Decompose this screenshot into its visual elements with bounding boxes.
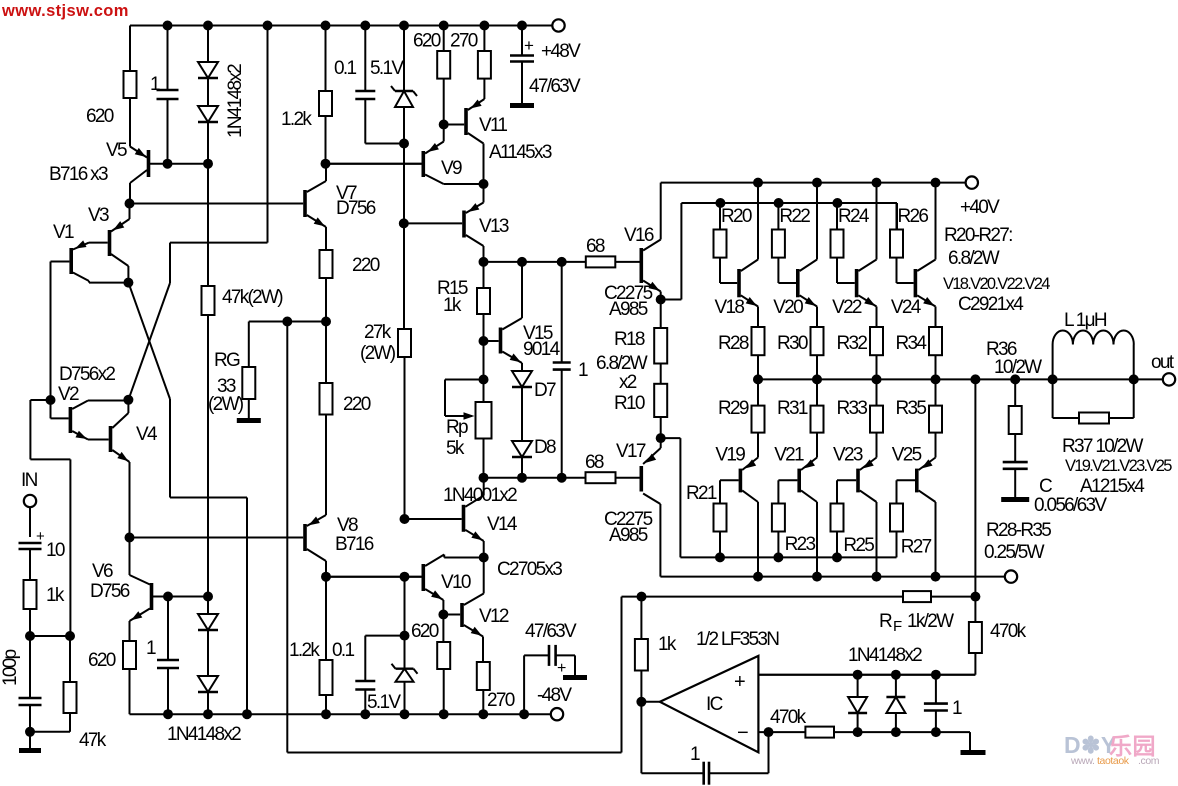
- node rail/floatcap: [519, 709, 529, 719]
- label plus input cap: [36, 528, 45, 545]
- label 1N4148x2 (opamp): [848, 645, 922, 666]
- wire R1 emitter feed: [742, 433, 758, 470]
- resistor R37 damping: [1053, 379, 1134, 423]
- resistor RF 1k/2W: [903, 591, 931, 602]
- resistor R27 base: [890, 504, 903, 532]
- wire 68 to V16 base: [615, 261, 639, 263]
- wire top supply rail: [130, 25, 552, 27]
- svg-text:D756: D756: [90, 581, 130, 602]
- resistor R20 6.8/2W: [714, 230, 727, 258]
- node bias R21: [715, 552, 725, 562]
- transistor V22: [857, 183, 877, 307]
- node top rail / 0.1 cap: [360, 21, 370, 31]
- capacitor 0.1 top: [355, 91, 375, 99]
- label 1N4148x2 vertical: [225, 64, 246, 138]
- label 270 (V11): [450, 31, 478, 52]
- wire V12 emitter to 270: [482, 637, 484, 663]
- wire 47k bottom link: [30, 731, 70, 733]
- label A1145x3: [489, 142, 552, 163]
- node minus d1: [853, 727, 863, 737]
- transistor V9: [326, 142, 444, 185]
- svg-text:+40V: +40V: [960, 197, 1000, 218]
- label V7: [336, 183, 357, 204]
- wire R15 top lead: [483, 262, 485, 288]
- svg-text:R34: R34: [896, 333, 928, 354]
- resistor R25 base: [831, 504, 844, 532]
- label IN: [21, 470, 38, 491]
- node bias R24: [832, 198, 842, 208]
- wire bias link: [30, 635, 70, 637]
- node zener/0.1: [399, 139, 409, 149]
- svg-text:V21: V21: [774, 445, 804, 466]
- ground -48 cap: [563, 675, 587, 680]
- wire V3 base feed from rail: [170, 26, 268, 284]
- label 5.1V top: [370, 58, 404, 79]
- node comp cap bottom: [557, 473, 567, 483]
- resistor 220 (V8): [320, 383, 333, 415]
- node V2/V4 collectors: [123, 395, 133, 405]
- label 1N4148x2 bottom: [167, 724, 241, 745]
- terminal out: [1163, 373, 1175, 385]
- node top rail / 1.2k: [321, 21, 331, 31]
- wire 47k to diodes lower: [207, 597, 209, 615]
- wire diode b bottom: [895, 713, 897, 732]
- svg-text:R23: R23: [785, 534, 816, 555]
- node out R28: [753, 374, 763, 384]
- label plus input: [734, 671, 746, 693]
- label V5: [106, 140, 127, 161]
- node V6 base / diodes: [203, 592, 213, 602]
- label 1k/2W: [907, 611, 954, 632]
- label 1 comp: [578, 360, 588, 381]
- node out L left: [1048, 374, 1058, 384]
- label 10/2W (R36): [994, 357, 1042, 378]
- svg-text:220: 220: [352, 255, 380, 276]
- label R29: [718, 398, 749, 419]
- svg-text:.com: .com: [1138, 755, 1160, 767]
- wire R18-R10: [660, 364, 662, 384]
- svg-text:620: 620: [88, 650, 116, 671]
- label R22: [779, 206, 810, 227]
- resistor 620 (V5 emitter): [124, 71, 137, 98]
- label 0.1 top: [334, 58, 356, 79]
- label R28-R35: [986, 520, 1051, 541]
- wire feedback vertical: [286, 322, 288, 753]
- label 5k: [446, 438, 465, 459]
- node rail/620c: [439, 709, 449, 719]
- svg-text:470k: 470k: [770, 707, 807, 728]
- node plus c1: [931, 670, 941, 680]
- label 10: [46, 540, 65, 561]
- wire 470k NFB: [974, 597, 976, 622]
- label D756x2: [59, 364, 115, 385]
- svg-text:R30: R30: [777, 333, 808, 354]
- label R20-R27:: [944, 225, 1012, 246]
- svg-text:taotaok: taotaok: [1097, 755, 1130, 767]
- label R27: [901, 537, 932, 558]
- svg-text:V24: V24: [891, 297, 922, 318]
- label R35: [896, 398, 927, 419]
- node bias R23: [773, 552, 783, 562]
- wire comp cap top: [561, 262, 563, 363]
- label V14: [487, 514, 518, 535]
- wire V6 base to cap: [167, 597, 169, 661]
- svg-text:R26: R26: [898, 206, 929, 227]
- wire R26 to V24 base: [897, 258, 914, 283]
- node top rail / C1: [163, 21, 173, 31]
- label R33: [837, 398, 868, 419]
- svg-text:A985: A985: [609, 525, 648, 546]
- wire floatcap left: [524, 655, 549, 714]
- wire cap to bottom rail: [167, 668, 169, 714]
- node RG / emitter chain: [321, 317, 331, 327]
- wire 470k to plus line: [758, 653, 975, 675]
- svg-text:6.8/2W: 6.8/2W: [948, 248, 1000, 269]
- wire V17e to bias rail low: [661, 438, 897, 557]
- svg-text:5.1V: 5.1V: [370, 58, 404, 79]
- label 1 (loop cap): [690, 744, 700, 765]
- wire bias to R26: [896, 203, 898, 230]
- svg-text:V3: V3: [88, 205, 109, 226]
- resistor 270 (V12): [477, 662, 490, 690]
- node out R34: [931, 374, 941, 384]
- wire RF node to 1k: [640, 597, 642, 639]
- label R34: [896, 333, 928, 354]
- label D8: [534, 437, 556, 458]
- svg-text:1k/2W: 1k/2W: [907, 611, 954, 632]
- svg-text:1: 1: [578, 360, 588, 381]
- node top rail / 270: [479, 21, 489, 31]
- node V14e/V10c/V12c: [479, 553, 489, 563]
- node rail V24c: [931, 178, 941, 188]
- wire R36 to C: [1014, 434, 1016, 462]
- node rail V18c: [753, 178, 763, 188]
- wire fb to opamp: [622, 597, 642, 753]
- transistor V14: [405, 478, 484, 541]
- label R23: [785, 534, 816, 555]
- label R15: [437, 278, 468, 299]
- svg-text:+: +: [524, 36, 534, 55]
- svg-text:A1145x3: A1145x3: [489, 142, 552, 163]
- wire opamp plus line: [758, 674, 975, 676]
- node out R32: [872, 374, 882, 384]
- wire diagonal V1/V3 collectors down: [128, 283, 170, 498]
- wire V22 emitter to R: [876, 307, 878, 328]
- svg-text:1N4148x2: 1N4148x2: [848, 645, 922, 666]
- node minus d2: [891, 727, 901, 737]
- label 47/63V top: [529, 76, 581, 97]
- wire D4 to bottom rail: [207, 692, 209, 714]
- resistor R18: [654, 328, 667, 364]
- label 33: [217, 376, 236, 397]
- label V24: [891, 297, 922, 318]
- svg-text:R37 10/2W: R37 10/2W: [1062, 436, 1144, 457]
- wire RF right: [931, 596, 975, 598]
- ground opamp: [961, 750, 986, 755]
- emitter arrow V15: [510, 353, 521, 362]
- wire 47k to gnd link: [69, 713, 71, 732]
- transistor V4: [88, 400, 130, 462]
- svg-text:V18.V20.V22.V24: V18.V20.V22.V24: [943, 275, 1050, 293]
- wire V5 collector to V7 base: [130, 203, 304, 205]
- svg-text:-48V: -48V: [537, 685, 572, 706]
- svg-text:R18: R18: [614, 329, 645, 350]
- node D8 bottom: [517, 473, 527, 483]
- terminal +48V: [552, 19, 564, 31]
- node input bias: [25, 631, 35, 641]
- capacitor C 1u (V6 base): [157, 660, 179, 668]
- svg-text:1: 1: [952, 698, 962, 719]
- wire +40V rail: [661, 182, 966, 184]
- svg-text:0.25/5W: 0.25/5W: [984, 542, 1045, 563]
- svg-text:V25: V25: [892, 445, 922, 466]
- svg-text:www.stjsw.com: www.stjsw.com: [1, 2, 129, 20]
- resistor R15 1k: [477, 288, 490, 314]
- resistor RG 33(2W): [242, 367, 255, 399]
- label V11: [479, 115, 507, 136]
- label V8: [337, 515, 358, 536]
- diode 1N4148 a: [198, 62, 218, 78]
- transistor V19: [720, 469, 758, 577]
- wire wiper link: [445, 380, 484, 417]
- svg-text:27k: 27k: [364, 322, 392, 343]
- svg-text:V1: V1: [53, 222, 74, 243]
- label V19.V21.V23.V25: [1065, 457, 1172, 475]
- label 270 (V12): [487, 690, 515, 711]
- wire R22 to V20 base: [778, 258, 796, 283]
- label 0.056/63V: [1034, 495, 1107, 516]
- wire zener node link: [404, 577, 406, 636]
- wire V8 collector line: [326, 576, 421, 578]
- svg-text:R20: R20: [721, 206, 752, 227]
- resistor R33: [870, 406, 883, 433]
- wire IN to cap: [29, 507, 31, 537]
- svg-text:R25: R25: [843, 535, 874, 556]
- wire R32 to output rail: [876, 355, 878, 379]
- transistor V24: [915, 183, 935, 307]
- label A985 (V17): [609, 525, 648, 546]
- resistor 27k(2W): [398, 329, 411, 357]
- transistor V15: [501, 262, 523, 371]
- resistor 270 (V11): [478, 51, 491, 79]
- wire base node to 47k: [207, 164, 209, 286]
- resistor 47k input: [64, 682, 77, 713]
- node RF left: [637, 592, 647, 602]
- wire zener b to rail: [404, 682, 406, 715]
- node minus/loop cap: [764, 727, 774, 737]
- svg-text:6.8/2W: 6.8/2W: [596, 353, 648, 374]
- transistor V10: [326, 555, 484, 601]
- svg-text:C2921x4: C2921x4: [958, 294, 1024, 315]
- label 220 (V7): [352, 255, 380, 276]
- svg-text:R10: R10: [614, 393, 645, 414]
- resistor R22 6.8/2W: [772, 230, 785, 258]
- label 68 upper: [586, 236, 605, 257]
- svg-text:V12: V12: [479, 606, 509, 627]
- transistor V13: [464, 184, 484, 262]
- node plus d1: [853, 670, 863, 680]
- node top rail / V3 base feed: [263, 21, 273, 31]
- diode 1N4148 c: [198, 614, 218, 630]
- label V18: [715, 297, 745, 318]
- resistor R26 6.8/2W: [890, 230, 903, 258]
- svg-text:270: 270: [487, 690, 515, 711]
- node V13 base tap: [399, 218, 409, 228]
- resistor R10: [654, 384, 667, 417]
- svg-text:R35: R35: [896, 398, 927, 419]
- svg-text:F: F: [893, 618, 902, 635]
- svg-text:V5: V5: [106, 140, 127, 161]
- node V5 base / diodes: [203, 159, 213, 169]
- resistor R32: [870, 327, 883, 355]
- transistor V5: [130, 147, 208, 200]
- label R21: [686, 483, 717, 504]
- node 1.2k / V9 base / V7: [321, 159, 331, 169]
- wire rail to R 620 top-left: [129, 26, 131, 72]
- resistor R23 base: [772, 504, 785, 532]
- wire R24 to V22 base: [837, 258, 855, 283]
- wire R10 to V17e node: [660, 417, 662, 448]
- wire 27k down to V14 base node: [404, 357, 406, 519]
- wire V16e to bias rail up: [661, 203, 897, 300]
- resistor R35: [929, 406, 942, 433]
- svg-text:100p: 100p: [0, 649, 21, 686]
- node rail/step wire: [242, 709, 252, 719]
- wire V6 emitter down: [129, 621, 131, 641]
- label 5.1V bottom: [367, 692, 401, 713]
- resistor 1k input: [24, 580, 37, 609]
- wire output rail: [758, 378, 1163, 380]
- emitter arrow V24: [923, 297, 934, 306]
- svg-text:V20: V20: [773, 297, 803, 318]
- diode 1N4148 d: [198, 676, 218, 692]
- label V6: [92, 561, 113, 582]
- ground +48 cap: [510, 103, 534, 108]
- capacitor 47/63V +48 rail: [510, 56, 534, 62]
- label V10: [441, 572, 471, 593]
- diode 1N4148 b: [198, 106, 218, 122]
- wire D1-D2: [207, 78, 209, 106]
- svg-text:V18: V18: [715, 297, 745, 318]
- resistor R36: [1009, 406, 1022, 434]
- node neg V23: [872, 572, 882, 582]
- emitter arrow V6: [131, 611, 142, 620]
- label V20: [773, 297, 803, 318]
- wire 620 to V11 base node: [443, 79, 445, 142]
- label A985 (V16): [609, 299, 648, 320]
- label V3: [88, 205, 109, 226]
- ground output C: [1001, 497, 1029, 502]
- wire V15 base to wiper node: [483, 341, 485, 402]
- label 1k (opamp): [658, 634, 677, 655]
- wire V12b node to 620: [442, 615, 444, 643]
- wire step to bottom rail: [170, 498, 247, 715]
- node top rail / 620: [439, 21, 449, 31]
- node top rail / filter cap: [517, 21, 527, 31]
- node RF right: [970, 592, 980, 602]
- label out: [1151, 352, 1175, 373]
- label V21: [774, 445, 804, 466]
- wire 620 to bottom rail: [129, 669, 131, 714]
- wire node to 100p: [29, 636, 31, 698]
- svg-text:V13: V13: [479, 216, 509, 237]
- svg-text:B716: B716: [335, 534, 374, 555]
- emitter arrow V19: [745, 459, 756, 468]
- wire 0.1b link: [365, 636, 404, 681]
- node rail/cap1b: [163, 709, 173, 719]
- label R10: [614, 393, 645, 414]
- svg-text:10: 10: [46, 540, 65, 561]
- label 47/63V bottom: [525, 621, 577, 642]
- svg-text:D756x2: D756x2: [59, 364, 115, 385]
- ground input: [19, 748, 41, 753]
- diode 1N4148 f: [886, 697, 905, 713]
- label R28: [718, 333, 749, 354]
- label V12: [479, 606, 509, 627]
- transistor V18: [739, 183, 758, 307]
- wire rail to C1: [167, 26, 169, 91]
- wire 100p to gnd node: [29, 705, 31, 748]
- wire V12 base line: [443, 614, 460, 616]
- label V19: [715, 445, 745, 466]
- wire V18 emitter to R: [757, 307, 759, 328]
- wire minus to ground: [969, 732, 971, 750]
- svg-text:1k: 1k: [443, 295, 462, 316]
- svg-text:V23: V23: [833, 445, 863, 466]
- wire 0.1b to rail: [364, 690, 366, 715]
- transistor V11: [444, 99, 485, 184]
- label D7: [534, 380, 556, 401]
- wire R30 to output rail: [816, 355, 818, 379]
- wire C to ground: [1014, 469, 1016, 497]
- label 68 lower: [585, 452, 604, 473]
- emitter arrow V23: [863, 459, 874, 468]
- transistor V17: [641, 448, 660, 577]
- label +40V: [960, 197, 1000, 218]
- svg-text:L 1μH: L 1μH: [1064, 310, 1107, 331]
- emitter arrow V10: [431, 590, 442, 599]
- node RG / feedback: [282, 317, 292, 327]
- logo taotaok: [1070, 755, 1160, 767]
- svg-text:270: 270: [450, 31, 478, 52]
- wire rail to R35: [935, 379, 937, 405]
- svg-text:Rp: Rp: [446, 417, 468, 438]
- resistor R28: [752, 327, 765, 355]
- label R20: [721, 206, 752, 227]
- svg-text:R28-R35: R28-R35: [986, 520, 1051, 541]
- resistor 68 upper: [586, 256, 616, 267]
- wire R18 chain: [660, 300, 662, 329]
- emitter arrow V25: [921, 459, 932, 468]
- node neg V19: [753, 572, 763, 582]
- svg-text:V11: V11: [479, 115, 507, 136]
- svg-text:10/2W: 10/2W: [994, 357, 1042, 378]
- label 220 (V8): [343, 394, 371, 415]
- label 27k: [364, 322, 392, 343]
- wire diagonal rail-feed to V2/V4 collectors: [128, 283, 170, 400]
- node neg V21: [812, 572, 822, 582]
- transistor V12: [462, 558, 484, 637]
- resistor 470k (NFB): [969, 622, 982, 653]
- label 9014: [523, 339, 561, 360]
- svg-text:R20-R27:: R20-R27:: [944, 225, 1012, 246]
- label 470k (minus): [770, 707, 807, 728]
- logo DIY: [1064, 732, 1156, 759]
- wire rail to 1.2k: [325, 26, 327, 92]
- wire diode a bottom: [857, 713, 859, 732]
- emitter arrow V2: [75, 431, 87, 439]
- node V5 base / C1: [163, 159, 173, 169]
